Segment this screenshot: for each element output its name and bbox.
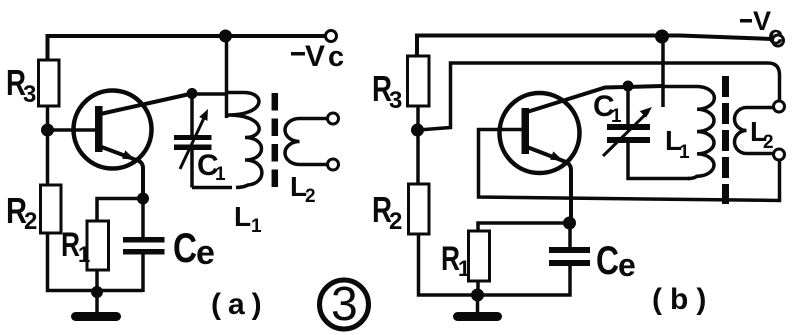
label L1 (b) <box>665 125 690 163</box>
label C1 (b) <box>593 90 622 127</box>
label Ce (a) <box>173 224 215 272</box>
wire: C1 bottom lead and tank bottom (b) <box>628 143 690 179</box>
core: transformer core (a) dashed <box>272 93 279 190</box>
terminal: L2 output top (a) <box>328 113 339 124</box>
wire: emitter junction down to Ce (b) <box>568 223 572 247</box>
terminal: L2 top (b) <box>774 101 785 112</box>
svg-text:c: c <box>328 41 344 73</box>
terminal -Vc (a) <box>326 31 337 42</box>
label C1 (a) <box>197 149 226 185</box>
capacitor Ce (b) plates <box>549 247 590 266</box>
capacitor C1 (b) plates <box>607 124 650 143</box>
figure number 3 in circle <box>320 278 369 331</box>
svg-text:e: e <box>618 247 636 283</box>
svg-text:1: 1 <box>679 142 690 163</box>
wire: top supply rail (a) with left drop to R3 <box>48 36 326 60</box>
svg-text:c: c <box>768 20 783 50</box>
label R2 (b) <box>372 189 402 235</box>
resistor R2 (b) <box>409 184 430 234</box>
core: transformer core (b) dashed <box>722 76 729 204</box>
svg-text:1: 1 <box>251 216 262 237</box>
svg-text:1: 1 <box>215 164 226 185</box>
wire: base feedback path to L2 bottom terminal (b) <box>479 130 780 201</box>
wire: collector junction down to C1 (a) <box>190 94 194 135</box>
wire: base node to transistor base (a) <box>48 128 96 132</box>
terminal: L2 output bottom (a) <box>328 159 339 170</box>
svg-text:2: 2 <box>763 132 774 153</box>
wire: bias node up-over to L2 top terminal (b) <box>418 63 780 130</box>
transistor Q1 (a) base bar <box>95 106 103 152</box>
svg-text:(b): (b) <box>652 283 714 316</box>
wire: bias node down to R2 (b) <box>416 133 420 184</box>
transistor Q2 (b) emitter stroke with arrow <box>527 147 571 220</box>
inductor L1 (b) <box>663 87 714 179</box>
wire: rail junction down to tank (b) <box>661 37 665 108</box>
resistor R2 (a) <box>41 185 62 233</box>
capacitor C1 (a) variable arrow <box>180 109 208 169</box>
inductor L2 (a) <box>285 119 328 165</box>
label R3 (b) <box>372 68 402 114</box>
svg-text:3: 3 <box>23 81 36 108</box>
transistor Q1 (a) emitter stroke with arrow <box>99 146 143 196</box>
svg-text:1: 1 <box>458 256 470 281</box>
label Ce (b) <box>596 239 636 283</box>
svg-text:C: C <box>173 224 197 271</box>
node: collector junction (a) <box>187 88 198 99</box>
capacitor C1 (b) variable arrow <box>603 107 652 156</box>
wire: C1 bottom lead (a) <box>190 150 194 188</box>
svg-text:1: 1 <box>611 106 622 127</box>
transistor Q2 (b) base bar <box>522 108 530 154</box>
svg-text:L: L <box>234 201 251 232</box>
resistor R1 (a) <box>87 221 109 270</box>
wire: R3 bottom to base node (a) <box>46 106 50 126</box>
label R2 (a) <box>6 190 37 235</box>
svg-text:2: 2 <box>305 186 316 207</box>
svg-text:(a): (a) <box>211 288 269 321</box>
wire: emitter junction to R1 (a) <box>97 199 143 222</box>
ground symbol (a) <box>71 292 121 321</box>
resistor R3 (b) <box>408 56 430 106</box>
svg-text:1: 1 <box>78 242 90 267</box>
resistor R3 (a) <box>39 60 60 106</box>
wire: top supply rail (b) with left drop to R3 <box>417 36 773 57</box>
inductor L2 (b) <box>735 108 774 154</box>
wire: Ce bottom to ground rail (a) <box>141 255 145 293</box>
capacitor Ce (a) plates <box>123 237 165 255</box>
wire: collector junction down to C1 (b) <box>626 86 630 124</box>
label R1 (b) <box>441 240 470 281</box>
label -Vc (a) <box>291 40 344 73</box>
label R1 (a) <box>61 226 90 267</box>
wire: rail junction down to tank (a) <box>225 36 229 118</box>
node: ground junction (a) <box>91 286 103 298</box>
wire: base node down to R2 (a) <box>46 133 50 185</box>
wire: R2 bottom to ground rail (b) <box>419 234 571 295</box>
transistor Q1 (a) collector stroke <box>98 94 192 115</box>
label (b) <box>652 283 714 316</box>
wire: emitter junction to R1 (b) <box>478 223 570 231</box>
svg-text:V: V <box>305 40 325 73</box>
label L2 (a) <box>290 171 316 207</box>
capacitor C1 (a) plates <box>174 135 212 150</box>
inductor L1 (a) <box>227 93 262 188</box>
node: collector junction (b) <box>623 81 634 92</box>
label -Vc (b) <box>740 6 783 50</box>
label R3 (a) <box>6 62 36 108</box>
terminal -Vc (b) <box>773 35 784 46</box>
wire: R1 bottom to ground rail (a) <box>95 270 99 292</box>
svg-text:e: e <box>196 234 215 272</box>
node: emitter junction (b) <box>563 217 576 230</box>
wire: R3 bottom to bias node (b) <box>416 106 420 125</box>
wire: tank bottom (a) <box>192 186 232 190</box>
node: emitter junction (a) <box>137 193 149 205</box>
node: base junction (a) <box>41 124 54 137</box>
wire: emitter junction down to Ce (a) <box>141 199 145 238</box>
svg-text:2: 2 <box>24 208 37 235</box>
svg-text:3: 3 <box>389 87 402 114</box>
svg-text:2: 2 <box>389 208 402 235</box>
node: top rail junction (a) <box>219 30 232 43</box>
ground symbol (b) <box>453 295 502 321</box>
node: top rail junction (b) <box>655 30 669 44</box>
terminal: L2 bottom (b) <box>774 149 785 160</box>
resistor R1 (b) <box>469 231 490 281</box>
node: bias junction (b) <box>411 124 424 137</box>
label L2 (b) <box>750 116 774 153</box>
label (a) <box>211 288 269 321</box>
transistor Q2 (b) circle <box>500 93 580 173</box>
svg-text:C: C <box>596 239 619 283</box>
wire: R2 bottom to ground rail (a) <box>48 233 144 291</box>
label L1 (a) <box>234 201 262 237</box>
svg-text:3: 3 <box>331 278 358 331</box>
transistor Q1 (a) circle <box>74 91 152 169</box>
transistor Q2 (b) collector stroke <box>527 86 663 112</box>
wire: collector junction to tank tee (a) <box>192 92 227 96</box>
wire: R1 bottom to ground rail (b) <box>476 281 480 295</box>
node: ground junction (b) <box>471 289 484 302</box>
